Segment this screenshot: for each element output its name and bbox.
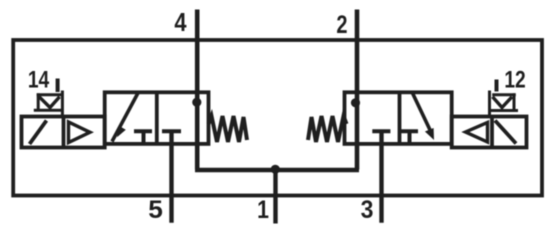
svg-text:4: 4 <box>174 8 187 37</box>
valve V1 left 3/2 body <box>105 92 209 144</box>
solenoid slash V2 <box>495 121 516 144</box>
node: junction dot on port2 line inside right valve <box>351 98 360 107</box>
node: junction dot at port1 bus <box>271 165 280 174</box>
wire: port 2 vertical line down to internal bus <box>355 10 360 170</box>
outer enclosure box <box>13 40 542 196</box>
pilot triangle V1 <box>69 122 91 143</box>
wire: port 3 stub <box>379 131 383 223</box>
pilot valve symbol 14 (left) <box>34 91 64 117</box>
pilot valve symbol 12 (right) <box>490 91 519 117</box>
pilot triangle V2 <box>466 123 488 143</box>
manual override tick 14 <box>56 79 60 93</box>
valve V1 flow arrow (left square) <box>112 92 139 142</box>
wire: port 5 stub <box>169 131 173 223</box>
svg-text:1: 1 <box>257 195 269 223</box>
svg-text:3: 3 <box>361 196 374 224</box>
solenoid actuator box of valve V2 <box>452 117 527 148</box>
svg-text:5: 5 <box>148 197 163 224</box>
svg-text:12: 12 <box>504 65 525 93</box>
svg-text:14: 14 <box>28 65 49 93</box>
valve V1 blocked port T (left square) <box>134 131 152 144</box>
solenoid slash V1 <box>30 121 47 145</box>
valve V2 blocked port T (left square) <box>372 129 390 133</box>
valve V2 flow arrow (right square) <box>412 92 431 132</box>
node: junction dot on port4 line inside left valve <box>192 98 201 107</box>
wire: internal bus connecting port4 and port2 legs <box>195 168 359 172</box>
solenoid actuator box of valve V1 <box>22 117 105 148</box>
manual override tick 12 <box>495 80 499 92</box>
svg-text:2: 2 <box>336 11 347 39</box>
actuator divider V2 <box>490 117 494 148</box>
valve V1 blocked port T (right square) <box>162 129 181 133</box>
spring return of valve V2 <box>308 116 347 142</box>
wire: port 4 vertical line down to internal bus <box>195 10 200 170</box>
wire: port 1 stub <box>273 170 277 224</box>
valve V2 right 3/2 body <box>345 92 452 144</box>
actuator divider V1 <box>62 117 66 148</box>
spring return of valve V1 <box>209 116 248 142</box>
valve V1 position divider <box>155 92 159 144</box>
valve V2 blocked port T (right square) <box>401 131 418 144</box>
valve V2 position divider <box>398 92 402 144</box>
